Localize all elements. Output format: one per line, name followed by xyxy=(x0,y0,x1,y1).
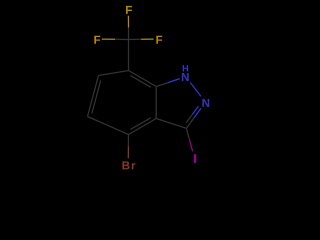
bond Ftop-CF3 xyxy=(127,16,129,28)
bond C5-C6 xyxy=(88,76,99,117)
bond Fright-CF3 xyxy=(141,38,154,40)
fluorine F right label xyxy=(156,36,162,44)
bond C3a-C4 xyxy=(129,119,157,135)
bond N2-C3 xyxy=(194,108,201,118)
bond CF3-C7 xyxy=(128,40,130,71)
bond C6-C7 xyxy=(99,71,129,76)
N1 hydrogen H label xyxy=(183,65,188,71)
bond C4-C5 xyxy=(88,117,129,135)
fluorine F left label xyxy=(94,36,100,44)
bond C7a-N1 xyxy=(156,83,168,87)
bond C3-I xyxy=(186,128,189,140)
bond C7a-C3a xyxy=(155,87,157,119)
bond Fleft-CF3 xyxy=(102,38,115,40)
nitrogen N1 label xyxy=(182,73,189,81)
bromine Br label xyxy=(122,161,135,169)
bond C7-C7a xyxy=(129,71,157,87)
bond N1-N2 xyxy=(190,83,201,97)
bond C4-Br xyxy=(127,135,129,147)
iodine I label xyxy=(194,155,196,163)
chemical structure drawing: 4-bromo-3-iodo-7-(trifluoromethyl)-1H-indazole on black background xyxy=(0,0,300,176)
fluorine F top label xyxy=(126,6,132,14)
bond C3-C3a xyxy=(156,119,186,129)
nitrogen N2 label xyxy=(202,99,209,107)
